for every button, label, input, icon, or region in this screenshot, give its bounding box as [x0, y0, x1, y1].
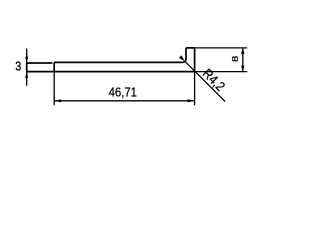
svg-text:8: 8: [231, 55, 240, 62]
svg-text:3: 3: [15, 58, 21, 73]
svg-text:46,71: 46,71: [109, 85, 138, 100]
